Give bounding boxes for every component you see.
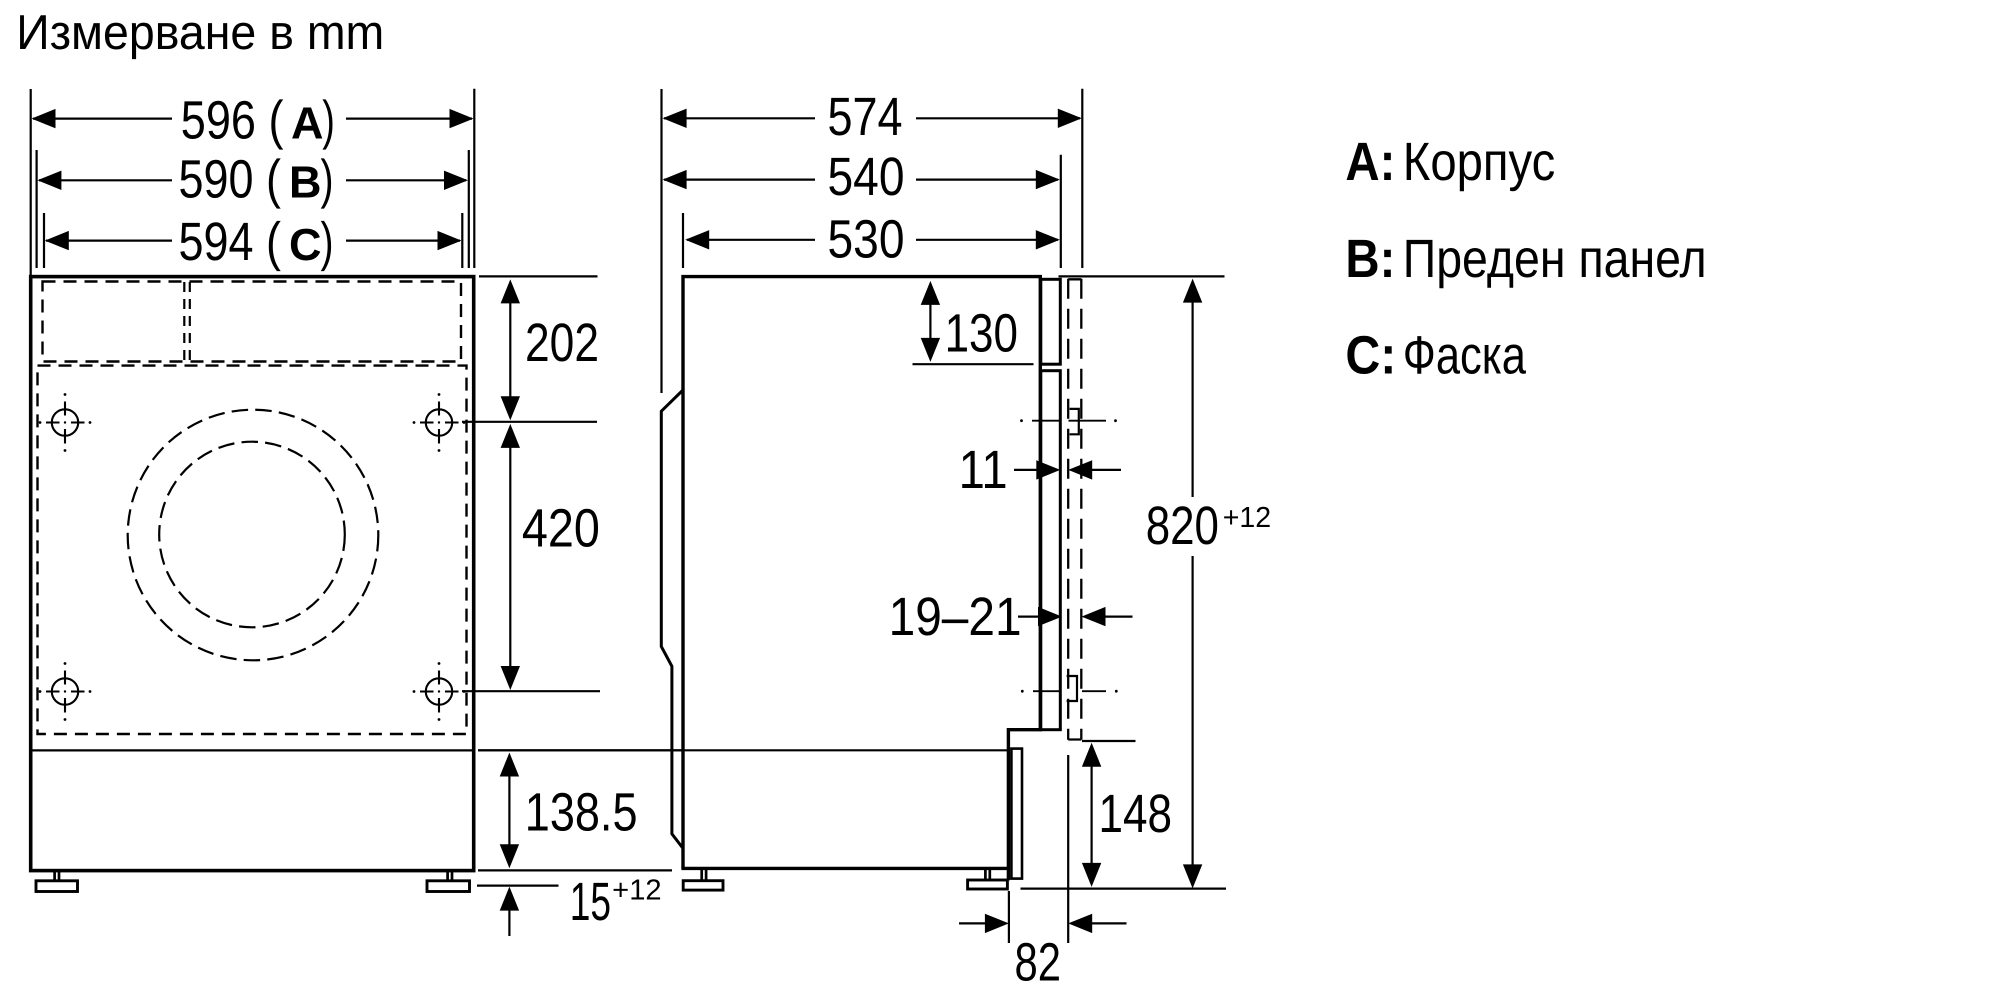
- dimension 202: top reference line: [479, 275, 598, 277]
- dimension 594 (C): extension lines: [44, 213, 462, 268]
- front view: dashed drum inner circle: [159, 442, 345, 628]
- side view: upper hinge centerline: [1032, 420, 1106, 422]
- svg-text:820: 820: [1146, 496, 1219, 556]
- dimension 11: arrows: [1014, 469, 1038, 471]
- side view: dashed furniture door front: [1067, 279, 1069, 740]
- svg-text:): ): [321, 212, 334, 272]
- svg-text:15: 15: [570, 872, 611, 932]
- svg-text:B:: B:: [1345, 229, 1395, 289]
- dimension 82: extension lines: [1009, 755, 1068, 943]
- side view: lower hinge dashed: [1067, 676, 1077, 701]
- side view: lower hinge centerline: [1033, 690, 1106, 692]
- front view: dashed main rectangle: [38, 366, 467, 734]
- side view: machine body fill: [683, 277, 1040, 869]
- dimension 594 (C): dimension line with arrows: [46, 240, 460, 242]
- svg-text:): ): [322, 91, 335, 151]
- svg-text:11: 11: [959, 440, 1008, 500]
- dimension 820+12: top reference line: [1059, 275, 1225, 277]
- svg-text:Измерване в mm: Измерване в mm: [16, 6, 384, 60]
- dimension 574: extension lines: [662, 89, 1083, 393]
- svg-text:C:: C:: [1345, 325, 1396, 385]
- svg-text:82: 82: [1015, 933, 1062, 993]
- machine bottom reference line: [478, 869, 672, 871]
- dimension 596 (A): dimension line with arrows: [33, 117, 472, 119]
- dimension 820+12: bottom reference line: [1021, 887, 1227, 889]
- svg-text:574: 574: [828, 87, 903, 147]
- dimension 420: dimension line with arrows: [509, 445, 511, 669]
- svg-text:Преден панел: Преден панел: [1403, 229, 1707, 289]
- dimension 19-21: arrows: [1018, 615, 1039, 617]
- dimension 820+12: dimension line with arrows: [1191, 299, 1193, 867]
- svg-text:19–21: 19–21: [889, 587, 1022, 647]
- side view: plinth panel: [1011, 749, 1022, 879]
- svg-text:+12: +12: [1223, 502, 1271, 534]
- dimension 148: top reference line: [1082, 740, 1136, 742]
- title: Измерване в mm: [16, 6, 384, 60]
- svg-text:590 (: 590 (: [179, 150, 282, 210]
- svg-text:Фаска: Фаска: [1403, 325, 1527, 385]
- svg-text:202: 202: [525, 313, 599, 373]
- dimension 130: dimension line with arrows: [929, 301, 931, 341]
- dimension 530: dimension line with arrows: [687, 239, 1058, 241]
- svg-text:420: 420: [522, 499, 600, 559]
- dimension 202: hole axis reference line: [462, 421, 597, 423]
- svg-text:A:: A:: [1345, 132, 1395, 192]
- side view: machine body outline: [683, 277, 1040, 881]
- dimension 590 (B): extension lines: [37, 150, 469, 268]
- front view: mounting hole 4: [426, 678, 452, 704]
- dimension 148: dimension line with arrows: [1090, 763, 1092, 866]
- dimension 15+12: arrow below: [508, 908, 510, 936]
- side view: front panel lower section: [1041, 371, 1061, 730]
- dimension 202: dimension line with arrows: [509, 300, 511, 400]
- svg-text:596 (: 596 (: [181, 91, 284, 151]
- side view: right foot: [985, 870, 989, 880]
- long reference line at plinth level crossing side view: [478, 749, 1008, 751]
- front view: right foot: [448, 871, 452, 881]
- dimension 540/530: extension lines: [683, 155, 1061, 268]
- front view: dashed drum outer circle: [128, 410, 379, 661]
- legend B: Преден панел: [1345, 229, 1706, 289]
- side view: upper hinge dashed: [1070, 409, 1079, 434]
- dimension 540: dimension line with arrows: [664, 179, 1058, 181]
- side view: left bulge profile: [661, 390, 683, 848]
- dimension 138.5: dimension line with arrows: [508, 773, 510, 847]
- front view: machine body outline: [31, 277, 474, 871]
- svg-text:Корпус: Корпус: [1403, 132, 1556, 192]
- dimension 82: arrows: [959, 922, 987, 924]
- svg-text:130: 130: [945, 304, 1018, 364]
- svg-text:138.5: 138.5: [525, 782, 638, 842]
- front view: mounting hole 1: [52, 409, 78, 435]
- svg-text:594 (: 594 (: [179, 212, 282, 272]
- svg-text:+12: +12: [612, 874, 661, 906]
- legend C: Фаска: [1345, 325, 1526, 385]
- dimension 574: dimension line with arrows: [664, 117, 1080, 119]
- svg-text:C: C: [289, 219, 322, 270]
- dimension 420: lower hole axis reference line: [462, 690, 600, 692]
- svg-text:B: B: [289, 157, 322, 208]
- side view: front panel upper section: [1041, 279, 1061, 364]
- front view: mounting hole 2: [426, 409, 452, 435]
- front view: dashed top band rectangle: [43, 282, 462, 362]
- side view: left foot: [702, 870, 706, 881]
- front view: mounting hole 3: [52, 678, 78, 704]
- legend A: Корпус: [1345, 132, 1555, 192]
- svg-text:A: A: [291, 98, 324, 149]
- svg-text:): ): [321, 150, 334, 210]
- long reference line at plinth level: [478, 749, 1008, 751]
- dimension 15+12: reference line: [477, 884, 559, 886]
- front view: left foot: [55, 871, 59, 881]
- side view: machine bottom edge: [681, 867, 1008, 870]
- front view: plinth separation line: [32, 749, 472, 751]
- svg-text:148: 148: [1099, 784, 1173, 844]
- dimension 596 (A): extension lines: [31, 89, 475, 276]
- front view: dashed double divider in top band: [184, 282, 190, 362]
- svg-text:530: 530: [828, 210, 905, 270]
- dimension 590 (B): dimension line with arrows: [39, 179, 466, 181]
- svg-text:540: 540: [828, 147, 905, 207]
- dimension 130: reference line under: [913, 363, 1034, 365]
